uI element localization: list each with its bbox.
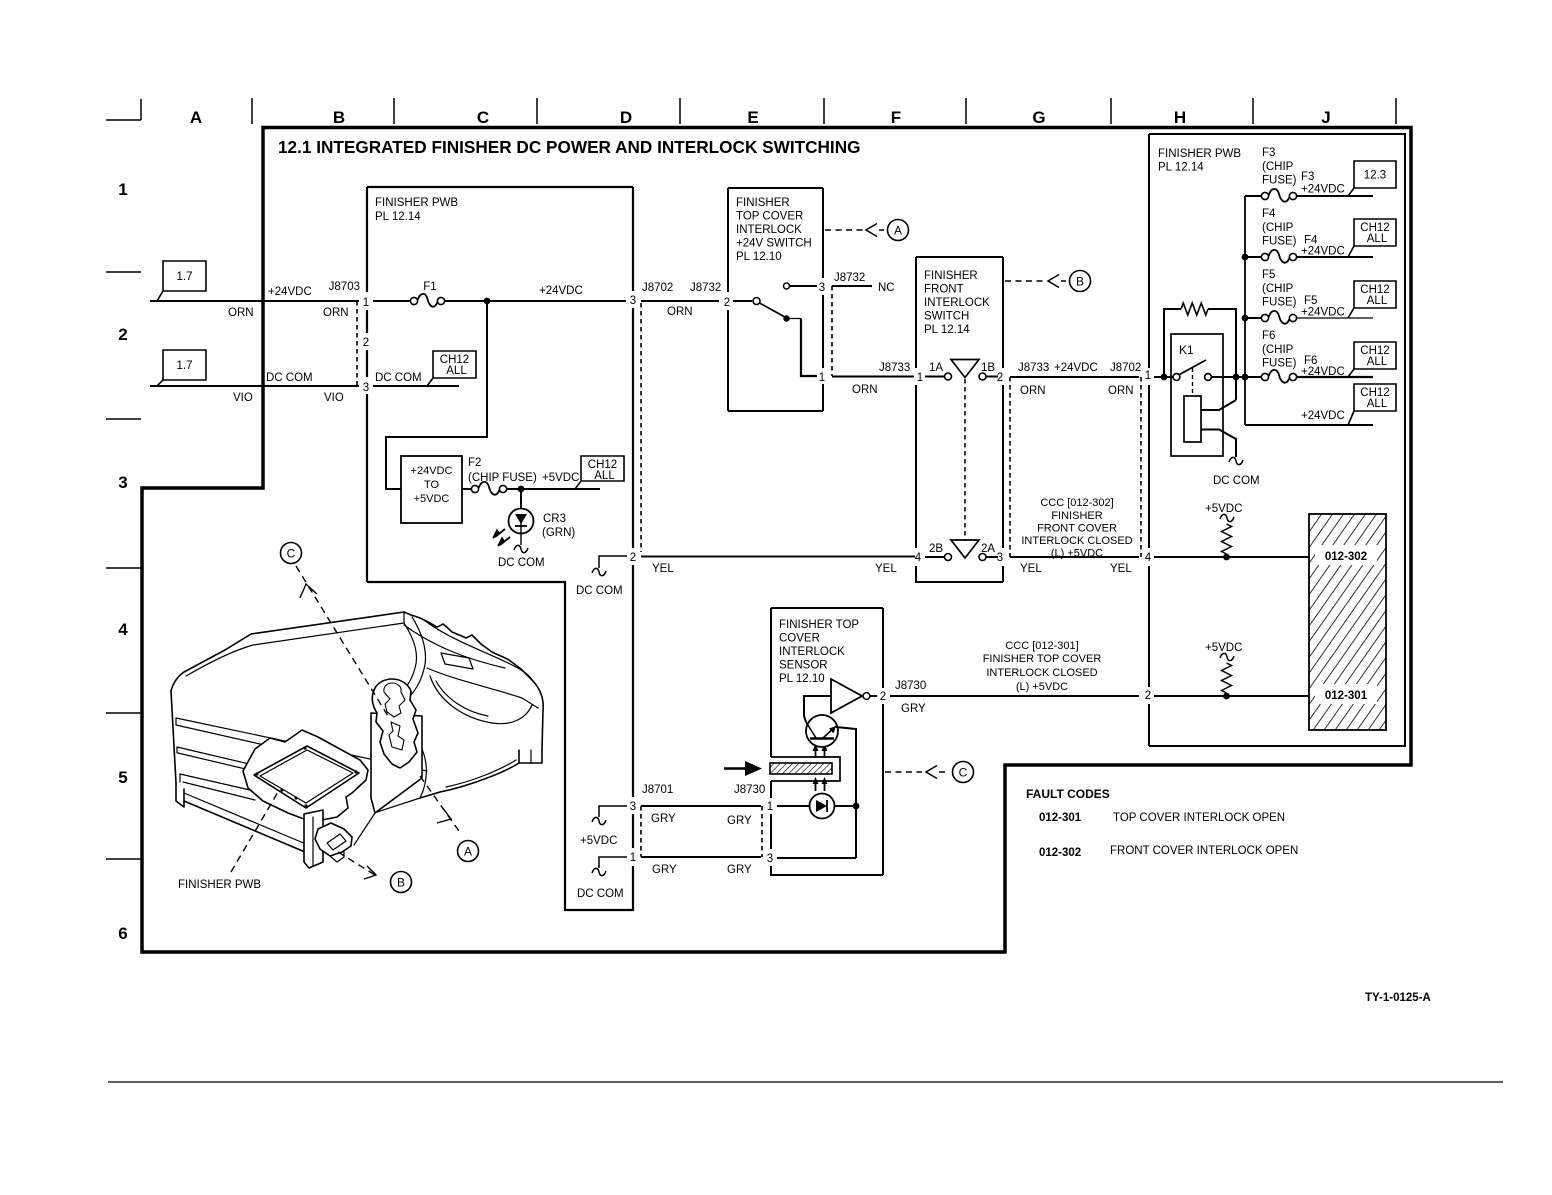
svg-text:(CHIP: (CHIP [1262, 222, 1294, 234]
svg-text:ALL: ALL [1367, 233, 1388, 245]
svg-text:NC: NC [878, 282, 895, 294]
pointer A dashed leader [825, 229, 863, 231]
svg-text:GRY: GRY [652, 864, 677, 876]
svg-text:FRONT: FRONT [924, 284, 964, 296]
wire DC COM from A2 [150, 385, 359, 387]
svg-text:F3: F3 [1262, 147, 1275, 159]
emitter wire down right rail [836, 727, 856, 858]
svg-text:(CHIP FUSE): (CHIP FUSE) [468, 472, 537, 484]
svg-text:J8701: J8701 [642, 784, 673, 796]
svg-text:3: 3 [819, 282, 825, 294]
svg-text:FAULT CODES: FAULT CODES [1026, 787, 1110, 801]
svg-text:PL 12.14: PL 12.14 [375, 211, 421, 223]
pull-up resistor R (012-302 line) [1222, 524, 1232, 554]
svg-text:PL 12.10: PL 12.10 [779, 673, 825, 685]
wire LED to emitter rail [835, 805, 857, 807]
IR light arrows above flag [815, 750, 817, 758]
svg-text:FINISHER PWB: FINISHER PWB [1158, 148, 1241, 160]
junction node +5VDC [518, 486, 525, 493]
LED emitter diode [810, 794, 835, 819]
svg-text:FINISHER PWB: FINISHER PWB [178, 879, 261, 891]
svg-text:+5VDC: +5VDC [542, 472, 579, 484]
svg-text:1B: 1B [981, 362, 995, 374]
wire ORN J8702-3 to J8732-2 [641, 300, 719, 302]
svg-text:(L) +5VDC: (L) +5VDC [1016, 681, 1068, 693]
wire pin3 internal [777, 857, 856, 859]
finisher left foot [176, 783, 184, 807]
connector J8730 dashed mating line [761, 806, 763, 857]
svg-text:FINISHER: FINISHER [924, 270, 978, 282]
svg-text:FINISHER TOP: FINISHER TOP [779, 619, 859, 631]
svg-text:1.7: 1.7 [177, 271, 193, 283]
row ruler ticks [106, 271, 141, 273]
svg-text:B: B [333, 108, 345, 127]
svg-text:DC COM: DC COM [266, 372, 313, 384]
relay K1 contact [1173, 374, 1180, 381]
wire arm to pin 1 [787, 318, 802, 320]
svg-text:ORN: ORN [228, 307, 254, 319]
svg-text:3: 3 [630, 295, 636, 307]
svg-text:3: 3 [363, 382, 369, 394]
column ruler ticks [251, 98, 253, 124]
svg-text:(CHIP: (CHIP [1262, 344, 1294, 356]
svg-text:H: H [1174, 108, 1186, 127]
pointer circle C (isometric) [281, 543, 302, 564]
svg-text:1: 1 [118, 180, 127, 199]
svg-text:K1: K1 [1179, 343, 1194, 357]
callout CH12 ALL (+5VDC) [581, 456, 624, 481]
svg-text:INTERLOCK CLOSED: INTERLOCK CLOSED [986, 667, 1097, 679]
page corner bracket top-left [106, 99, 141, 120]
pointer circle A [888, 220, 909, 241]
svg-text:4: 4 [915, 552, 922, 564]
pointer C dashed leader [885, 771, 922, 773]
F5 fuse row [1245, 317, 1261, 319]
svg-text:+24VDC: +24VDC [1054, 362, 1098, 374]
junction LED cathode / emitter rail [853, 803, 860, 810]
svg-text:3: 3 [630, 801, 636, 813]
svg-text:FINISHER: FINISHER [736, 197, 790, 209]
svg-text:DC COM: DC COM [576, 585, 623, 597]
svg-text:3: 3 [118, 473, 127, 492]
svg-text:3: 3 [997, 552, 1003, 564]
svg-text:YEL: YEL [652, 563, 674, 575]
svg-text:INTERLOCK CLOSED: INTERLOCK CLOSED [1021, 535, 1132, 547]
callout CH12 ALL (F6) [1354, 342, 1396, 369]
svg-text:SWITCH: SWITCH [924, 311, 969, 323]
svg-text:F2: F2 [468, 457, 481, 469]
callout 1.7 (to DC COM wire) [163, 350, 206, 380]
svg-text:+24VDC: +24VDC [1301, 366, 1345, 378]
svg-text:GRY: GRY [727, 864, 752, 876]
callout CH12 ALL (F5) [1354, 281, 1396, 308]
svg-text:ORN: ORN [1020, 385, 1046, 397]
wire pin1 to F1 [373, 300, 410, 302]
svg-text:(L) +5VDC: (L) +5VDC [1051, 548, 1103, 560]
callout CH12 ALL (DC COM) [433, 351, 476, 378]
fuse F1 [410, 297, 417, 304]
FINISHER TOP COVER INTERLOCK +24V SWITCH box [728, 188, 823, 411]
svg-text:A: A [894, 224, 902, 238]
svg-text:INTERLOCK: INTERLOCK [779, 646, 845, 658]
finisher bottom sweep right [420, 763, 519, 798]
top cover interlock bracket [372, 679, 418, 768]
svg-text:DC COM: DC COM [375, 372, 422, 384]
node 012-302 [1315, 545, 1377, 565]
wire F1 to J8702 pin3 (+24VDC) [445, 300, 626, 302]
interlock bracket lower cutout [389, 722, 404, 750]
svg-text:FINISHER PWB: FINISHER PWB [375, 197, 458, 209]
right cover slot [441, 653, 473, 669]
switch S1 common contact [733, 300, 752, 302]
svg-text:GRY: GRY [901, 703, 926, 715]
right cover crease [420, 745, 426, 798]
svg-text:012-301: 012-301 [1325, 690, 1368, 702]
svg-text:+24VDC: +24VDC [1301, 410, 1345, 422]
svg-text:GRY: GRY [727, 815, 752, 827]
wire converter to F2 [462, 488, 471, 490]
svg-text:A: A [190, 108, 202, 127]
svg-text:012-302: 012-302 [1325, 551, 1367, 563]
finisher unit isometric view [171, 612, 543, 868]
pointer circle B (isometric) [391, 872, 412, 893]
svg-text:F5: F5 [1262, 269, 1275, 281]
svg-text:FINISHER TOP COVER: FINISHER TOP COVER [983, 653, 1102, 665]
wire ORN J8732-1 to J8733-1 [832, 376, 914, 378]
wire YEL front switch pin3 to right PWB pin4 [1010, 556, 1139, 558]
FINISHER FRONT INTERLOCK SWITCH box [916, 257, 1003, 582]
actuator entry arrow [724, 767, 746, 770]
connector J8733 dashed mating line (right) [1009, 377, 1011, 557]
pointer A leader (isometric) [420, 776, 461, 834]
svg-text:TO: TO [424, 479, 440, 491]
svg-text:YEL: YEL [1110, 563, 1132, 575]
svg-text:FUSE): FUSE) [1262, 236, 1297, 248]
tray stack lines [176, 718, 427, 771]
svg-text:012-302: 012-302 [1039, 847, 1081, 859]
svg-text:2B: 2B [929, 543, 943, 555]
callout 1.7 (to +24VDC wire) [163, 261, 206, 291]
wire GRY J8701-3 to J8730-1 [641, 805, 761, 807]
svg-text:+5VDC: +5VDC [414, 493, 450, 505]
sensor slot [771, 757, 840, 781]
collector wire to inverter input [804, 696, 831, 722]
connector J8702 dashed mating line (right PWB) [1140, 377, 1142, 557]
wire YEL J8702-2 to front interlock switch pin 4 [641, 556, 915, 558]
finisher bottom front edges [184, 793, 306, 844]
resistor R (across contact) [1164, 309, 1181, 377]
+24VDC to +5VDC converter block [401, 456, 462, 523]
wire GRY J8701-1 to J8730-3 [641, 856, 761, 858]
svg-text:J8703: J8703 [329, 281, 360, 293]
svg-text:2A: 2A [981, 543, 995, 555]
connector J8701 dashed mating line [640, 806, 642, 857]
coil lower lead to DC COM [1201, 430, 1236, 458]
svg-text:PL 12.14: PL 12.14 [924, 324, 970, 336]
svg-text:1.7: 1.7 [177, 360, 193, 372]
svg-text:1: 1 [1145, 370, 1151, 382]
label FINISHER PWB leader [231, 792, 278, 872]
wire ORN J8733-2 to J8702-1 [1010, 376, 1139, 378]
front column [371, 713, 422, 813]
svg-text:TOP COVER INTERLOCK OPEN: TOP COVER INTERLOCK OPEN [1113, 812, 1285, 824]
svg-text:C: C [477, 108, 489, 127]
svg-text:(CHIP: (CHIP [1262, 283, 1294, 295]
svg-text:F1: F1 [423, 281, 436, 293]
F3 fuse row [1245, 195, 1261, 197]
svg-text:ALL: ALL [594, 470, 615, 482]
svg-text:1: 1 [363, 297, 369, 309]
pointer B dashed leader [1005, 280, 1045, 282]
svg-text:F6: F6 [1262, 330, 1275, 342]
callout CH12 ALL (F4) [1354, 219, 1396, 246]
K1 armature dashed link [1192, 368, 1194, 396]
svg-text:ALL: ALL [446, 365, 467, 377]
fuse F2 (chip fuse) [471, 485, 478, 492]
pull-up resistor R (012-301 line) [1222, 663, 1232, 693]
svg-text:J8702: J8702 [1110, 362, 1141, 374]
DC COM net flag at J8701 pin 1 [599, 857, 627, 868]
F6 fuse row [1261, 373, 1268, 380]
pointer C leader (isometric) [296, 566, 388, 716]
DC COM net flag at J8702 pin 2 [599, 556, 627, 568]
connector J8703 dashed mating line [356, 301, 358, 386]
pointer B leader (isometric) [338, 852, 375, 875]
svg-text:3: 3 [767, 853, 773, 865]
svg-text:COVER: COVER [779, 633, 820, 645]
front left leg [304, 810, 323, 868]
main +24VDC wire through K1 contact to F6 [1154, 376, 1173, 378]
svg-text:J: J [1321, 108, 1330, 127]
svg-text:2: 2 [630, 552, 636, 564]
pointer circle B [1070, 271, 1091, 292]
svg-text:C: C [959, 766, 968, 780]
svg-text:1: 1 [917, 372, 923, 384]
svg-text:J8730: J8730 [895, 680, 926, 692]
svg-text:J8732: J8732 [834, 272, 865, 284]
PWB mounting bracket [243, 730, 368, 822]
svg-text:CR3: CR3 [543, 513, 566, 525]
FINISHER PWB board outline (left) [367, 186, 633, 188]
svg-text:+24VDC: +24VDC [1301, 307, 1345, 319]
svg-text:SENSOR: SENSOR [779, 660, 828, 672]
pointer circle C [953, 762, 974, 783]
svg-text:DC COM: DC COM [498, 557, 545, 569]
svg-text:F4: F4 [1262, 208, 1276, 220]
svg-text:GRY: GRY [651, 813, 676, 825]
svg-text:+5VDC: +5VDC [580, 835, 617, 847]
unfused +24VDC row [1245, 424, 1373, 426]
wire GRY sensor output to right PWB pin 2 [890, 695, 1139, 697]
svg-text:ALL: ALL [1367, 398, 1388, 410]
finisher outer silhouette top [171, 612, 543, 749]
svg-text:PL 12.14: PL 12.14 [1158, 162, 1204, 174]
svg-text:1: 1 [767, 801, 773, 813]
svg-text:A: A [464, 845, 472, 859]
svg-text:4: 4 [118, 620, 128, 639]
svg-text:+24VDC: +24VDC [1301, 184, 1345, 196]
switch arm [760, 303, 785, 317]
IR light arrows below flag [815, 783, 817, 791]
wire +24VDC feed to converter [386, 301, 487, 489]
svg-text:FUSE): FUSE) [1262, 297, 1297, 309]
svg-text:2: 2 [724, 297, 730, 309]
coil upper lead [1201, 400, 1236, 410]
PWB screws [303, 746, 306, 749]
junction rail/wire [1233, 374, 1240, 381]
bottom separator rule [108, 1081, 1503, 1083]
right cover contour curves [424, 620, 533, 681]
svg-text:ALL: ALL [1367, 295, 1388, 307]
wire DC COM stub inside PWB [373, 385, 459, 387]
svg-text:1: 1 [630, 852, 636, 864]
svg-text:+5VDC: +5VDC [1205, 642, 1242, 654]
svg-text:F5: F5 [1304, 295, 1317, 307]
top contact pair 1A/1B [925, 376, 944, 378]
plunger dashed link [964, 379, 966, 541]
junction node +24VDC [484, 298, 491, 305]
svg-text:PL 12.10: PL 12.10 [736, 251, 782, 263]
svg-text:F3: F3 [1301, 171, 1314, 183]
callout 12.3 [1354, 161, 1396, 188]
svg-text:J8702: J8702 [642, 282, 673, 294]
connector J8702 dashed mating line [640, 303, 642, 552]
svg-text:B: B [397, 876, 405, 890]
svg-text:12.3: 12.3 [1364, 170, 1386, 182]
svg-text:2: 2 [1145, 690, 1151, 702]
wire 012-302 sense line [1154, 556, 1309, 558]
svg-text:B: B [1076, 275, 1084, 289]
svg-text:FINISHER: FINISHER [1051, 510, 1102, 522]
svg-text:2: 2 [363, 337, 369, 349]
svg-text:+24VDC: +24VDC [411, 465, 453, 477]
svg-text:G: G [1032, 108, 1045, 127]
svg-text:FUSE): FUSE) [1262, 175, 1297, 187]
finisher right foot [519, 749, 542, 763]
svg-text:YEL: YEL [1020, 563, 1042, 575]
svg-text:INTERLOCK: INTERLOCK [736, 224, 802, 236]
svg-text:4: 4 [1145, 552, 1152, 564]
callout CH12 ALL (+24VDC) [1354, 384, 1396, 411]
finisher left front edge [171, 691, 176, 783]
svg-text:C: C [287, 547, 296, 561]
DC COM net flag below K1 [1229, 457, 1243, 464]
svg-text:+24VDC: +24VDC [268, 286, 312, 298]
svg-text:1: 1 [819, 372, 825, 384]
svg-text:J8732: J8732 [690, 282, 721, 294]
CR3 emitted light arrows [495, 529, 505, 537]
main frame border [142, 128, 1411, 953]
left PWB right edge / D-rail segments with pin gaps [632, 187, 634, 291]
svg-text:FRONT COVER: FRONT COVER [1037, 523, 1117, 535]
svg-text:+24VDC: +24VDC [1301, 246, 1345, 258]
svg-text:12.1 INTEGRATED FINISHER DC PO: 12.1 INTEGRATED FINISHER DC POWER AND IN… [278, 137, 861, 157]
FINISHER TOP COVER INTERLOCK SENSOR box [771, 607, 883, 609]
svg-text:2: 2 [118, 325, 127, 344]
K1 coil [1184, 396, 1201, 442]
K1 enclosure box [1171, 334, 1223, 456]
front latch bracket [315, 823, 352, 856]
phototransistor Q [806, 715, 838, 747]
svg-text:+24VDC: +24VDC [539, 285, 583, 297]
svg-text:E: E [747, 108, 758, 127]
svg-text:ORN: ORN [323, 307, 349, 319]
svg-text:DC COM: DC COM [577, 888, 624, 900]
switch NC contact [784, 283, 790, 289]
svg-text:CCC [012-302]: CCC [012-302] [1040, 497, 1113, 509]
svg-text:VIO: VIO [233, 392, 253, 404]
LED CR3 [520, 489, 522, 509]
+5VDC net flag at J8701 pin 3 [599, 806, 627, 817]
svg-text:2: 2 [997, 372, 1003, 384]
svg-text:VIO: VIO [324, 392, 344, 404]
pointer circle A (isometric) [458, 841, 479, 862]
svg-text:DC COM: DC COM [1213, 475, 1260, 487]
svg-text:1A: 1A [929, 362, 943, 374]
svg-text:ORN: ORN [1108, 385, 1134, 397]
svg-text:(GRN): (GRN) [542, 527, 575, 539]
svg-text:J8733: J8733 [1018, 362, 1049, 374]
svg-text:ORN: ORN [667, 306, 693, 318]
svg-text:5: 5 [118, 768, 127, 787]
DC COM net flag under CR3 [514, 545, 528, 552]
top cover opening rims [396, 623, 417, 697]
F4 fuse row [1245, 256, 1261, 258]
svg-text:2: 2 [880, 691, 886, 703]
svg-text:(CHIP: (CHIP [1262, 161, 1294, 173]
svg-text:TY-1-0125-A: TY-1-0125-A [1365, 992, 1431, 1004]
svg-text:012-301: 012-301 [1039, 812, 1082, 824]
connector J8732 dashed mating line [831, 286, 833, 376]
wire F2 to +5VDC callout [507, 488, 600, 490]
svg-text:J8730: J8730 [734, 784, 765, 796]
ridge band [253, 612, 404, 645]
svg-text:CCC [012-301]: CCC [012-301] [1005, 640, 1078, 652]
node 012-301 [1315, 684, 1377, 704]
inverter U (buffer with bubble) [831, 679, 862, 713]
svg-text:F: F [891, 108, 901, 127]
svg-text:TOP COVER: TOP COVER [736, 211, 803, 223]
svg-text:INTERLOCK: INTERLOCK [924, 297, 990, 309]
+24VDC distribution rail [1244, 196, 1246, 425]
wire inverter output to pin 2 [870, 695, 877, 697]
front apron edges [354, 813, 375, 845]
svg-text:FRONT COVER INTERLOCK OPEN: FRONT COVER INTERLOCK OPEN [1110, 845, 1298, 857]
wire +24VDC from A2 [150, 300, 359, 302]
FINISHER PWB board outline (right) [1149, 134, 1405, 746]
svg-text:D: D [620, 108, 632, 127]
svg-text:+5VDC: +5VDC [1205, 503, 1242, 515]
wire 012-301 sense line [1154, 695, 1309, 697]
svg-text:ORN: ORN [852, 384, 878, 396]
svg-text:ALL: ALL [1367, 356, 1388, 368]
svg-text:6: 6 [118, 924, 127, 943]
junction resistor leg [1161, 374, 1168, 381]
interlock bracket keyhole cutout [384, 683, 405, 717]
wire pin1 to LED [777, 805, 809, 807]
wire NC stub [832, 285, 872, 287]
svg-text:+24V SWITCH: +24V SWITCH [736, 238, 812, 250]
svg-text:FUSE): FUSE) [1262, 358, 1297, 370]
svg-text:YEL: YEL [875, 563, 897, 575]
svg-text:J8733: J8733 [879, 362, 910, 374]
finisher PWB board [254, 746, 359, 808]
